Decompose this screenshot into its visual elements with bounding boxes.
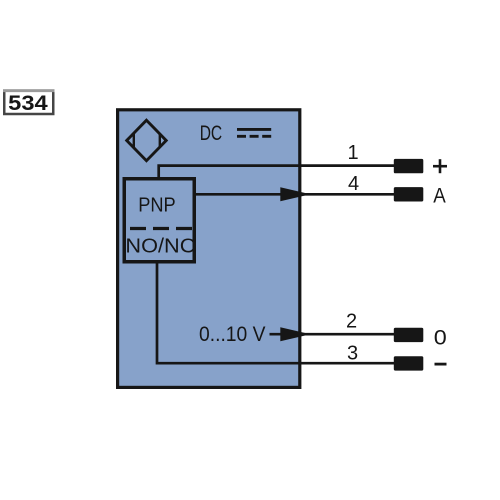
figure number label 534 [3, 91, 55, 115]
svg-text:2: 2 [346, 311, 357, 333]
svg-text:DC: DC [200, 122, 223, 145]
label minus [435, 363, 447, 366]
label + [433, 159, 447, 173]
svg-text:534: 534 [8, 92, 48, 115]
terminal 1 [394, 159, 424, 173]
dashed divider [130, 227, 192, 230]
wire 2 (to terminal 2) [270, 333, 395, 336]
DC symbol solid line [237, 128, 271, 131]
svg-text:1: 1 [348, 142, 359, 164]
svg-text:PNP: PNP [138, 195, 176, 217]
svg-text:0...10 V: 0...10 V [199, 323, 266, 346]
wire 1 (from output stage top to terminal 1) [159, 166, 394, 178]
svg-text:NO/NC: NO/NC [125, 235, 195, 257]
sensor symbol diamond [127, 120, 167, 161]
wire 3 (from output stage bottom to terminal 3) [157, 262, 394, 363]
svg-text:A: A [433, 184, 446, 208]
sensor body [118, 110, 300, 388]
svg-text:3: 3 [347, 343, 358, 365]
sensor symbol right chord triangle [159, 134, 161, 148]
DC symbol dashed line [237, 135, 271, 138]
terminal 2 [394, 328, 424, 342]
sensor symbol left chord triangle [133, 133, 135, 148]
arrow on wire 4 [280, 187, 310, 201]
terminal 3 [394, 356, 424, 370]
svg-text:4: 4 [348, 173, 359, 195]
output stage box PNP / NO/NC [124, 179, 194, 262]
terminal 4 [394, 187, 424, 201]
svg-text:0: 0 [434, 325, 447, 349]
wire 4 (from output stage to terminal 4) [196, 193, 394, 196]
arrow on wire 2 [280, 327, 310, 341]
